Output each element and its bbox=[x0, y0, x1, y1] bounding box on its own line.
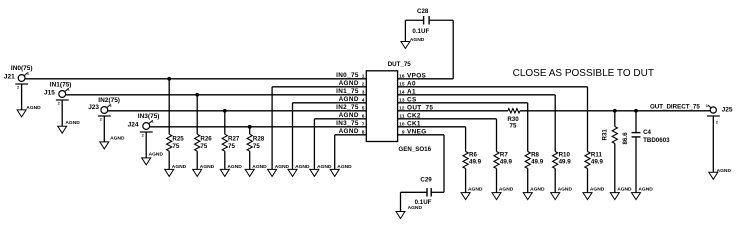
svg-text:J25: J25 bbox=[722, 107, 733, 114]
svg-text:R28: R28 bbox=[253, 136, 265, 143]
svg-text:AGND: AGND bbox=[339, 80, 359, 87]
svg-text:CLOSE AS POSSIBLE TO DUT: CLOSE AS POSSIBLE TO DUT bbox=[513, 68, 654, 79]
svg-text:AGND: AGND bbox=[617, 186, 632, 192]
svg-text:AGND: AGND bbox=[530, 186, 545, 192]
svg-text:AGND: AGND bbox=[590, 186, 605, 192]
svg-text:R26: R26 bbox=[200, 136, 212, 143]
svg-text:75: 75 bbox=[200, 143, 207, 150]
svg-text:AGND: AGND bbox=[339, 96, 359, 103]
svg-text:AGND: AGND bbox=[275, 164, 290, 170]
svg-text:AGND: AGND bbox=[339, 112, 359, 119]
svg-text:AGND: AGND bbox=[337, 164, 352, 170]
svg-text:R31: R31 bbox=[601, 129, 608, 141]
svg-text:75: 75 bbox=[228, 143, 235, 150]
svg-text:IN0_75: IN0_75 bbox=[336, 72, 359, 79]
svg-text:AGND: AGND bbox=[499, 186, 514, 192]
svg-text:0.1UF: 0.1UF bbox=[412, 28, 429, 35]
svg-text:DUT_75: DUT_75 bbox=[388, 61, 412, 68]
svg-text:AGND: AGND bbox=[149, 152, 164, 158]
svg-text:IN0(75): IN0(75) bbox=[11, 65, 33, 72]
svg-text:49.9: 49.9 bbox=[559, 159, 572, 166]
svg-text:R25: R25 bbox=[172, 136, 184, 143]
svg-text:J15: J15 bbox=[44, 89, 55, 96]
svg-text:J21: J21 bbox=[4, 74, 15, 81]
svg-text:AGND: AGND bbox=[172, 164, 187, 170]
svg-text:AGND: AGND bbox=[468, 186, 483, 192]
svg-text:0.1UF: 0.1UF bbox=[415, 199, 432, 206]
svg-text:R27: R27 bbox=[228, 136, 240, 143]
svg-text:C29: C29 bbox=[420, 177, 432, 184]
svg-text:AGND: AGND bbox=[410, 37, 425, 43]
svg-text:AGND: AGND bbox=[65, 120, 80, 126]
svg-text:IN3(75): IN3(75) bbox=[138, 113, 160, 120]
svg-text:AGND: AGND bbox=[227, 164, 242, 170]
svg-text:49.9: 49.9 bbox=[591, 159, 604, 166]
svg-text:AGND: AGND bbox=[717, 168, 732, 174]
svg-text:86.6: 86.6 bbox=[622, 132, 629, 145]
svg-text:AGND: AGND bbox=[110, 136, 125, 142]
svg-text:49.9: 49.9 bbox=[531, 159, 544, 166]
svg-text:IN1(75): IN1(75) bbox=[50, 82, 72, 89]
svg-text:49.9: 49.9 bbox=[469, 159, 482, 166]
svg-text:J24: J24 bbox=[128, 122, 139, 129]
svg-text:J23: J23 bbox=[88, 104, 99, 111]
svg-text:AGND: AGND bbox=[252, 164, 267, 170]
svg-text:GEN_SO16: GEN_SO16 bbox=[398, 146, 431, 153]
svg-text:AGND: AGND bbox=[638, 186, 653, 192]
svg-text:IN1_75: IN1_75 bbox=[336, 88, 359, 95]
svg-text:IN3_75: IN3_75 bbox=[336, 120, 359, 127]
svg-text:OUT_DIRECT_75: OUT_DIRECT_75 bbox=[650, 103, 700, 110]
svg-text:IN2(75): IN2(75) bbox=[98, 97, 120, 104]
svg-text:IN2_75: IN2_75 bbox=[336, 104, 359, 111]
svg-text:AGND: AGND bbox=[26, 105, 41, 111]
svg-text:75: 75 bbox=[253, 143, 260, 150]
svg-text:75: 75 bbox=[172, 143, 179, 150]
svg-text:C28: C28 bbox=[417, 8, 429, 15]
svg-text:AGND: AGND bbox=[295, 164, 310, 170]
svg-text:C4: C4 bbox=[643, 129, 651, 136]
svg-text:TBD0603: TBD0603 bbox=[643, 137, 670, 144]
svg-text:75: 75 bbox=[510, 122, 517, 129]
svg-text:49.9: 49.9 bbox=[500, 159, 513, 166]
svg-text:AGND: AGND bbox=[200, 164, 215, 170]
svg-text:AGND: AGND bbox=[558, 186, 573, 192]
svg-text:AGND: AGND bbox=[339, 128, 359, 135]
